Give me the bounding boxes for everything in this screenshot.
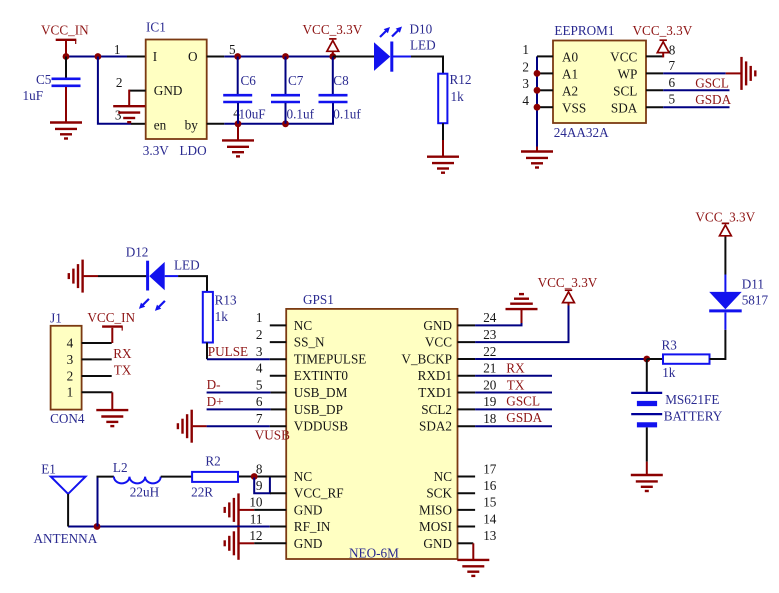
svg-text:GPS1: GPS1 (303, 292, 334, 307)
ground under C5 (50, 123, 82, 139)
wire VCC_IN rail (66, 56, 127, 58)
battery MS621FE (631, 359, 723, 462)
svg-text:LDO: LDO (180, 143, 207, 158)
pin stub GPS.13 + wire to ground (458, 543, 474, 559)
junction A1 (534, 70, 541, 77)
svg-text:LED: LED (410, 38, 436, 53)
svg-text:8: 8 (256, 461, 263, 476)
svg-text:22: 22 (483, 344, 496, 359)
wire net D- to pin 5 (207, 392, 287, 394)
svg-text:TX: TX (114, 362, 132, 377)
pin stub J1.2 (82, 375, 112, 377)
svg-text:TXD1: TXD1 (418, 385, 452, 400)
wire V_BCKP (475, 358, 647, 360)
svg-text:R2: R2 (205, 454, 220, 469)
svg-text:MISO: MISO (419, 502, 452, 517)
power flag VCC_IN (41, 23, 89, 57)
svg-text:TIMEPULSE: TIMEPULSE (294, 352, 367, 367)
svg-text:1k: 1k (215, 309, 229, 324)
pin stub GPS.21 (458, 375, 476, 377)
svg-text:NC: NC (434, 469, 453, 484)
pin stub GPS.3 (270, 358, 286, 360)
svg-text:GND: GND (423, 318, 452, 333)
svg-text:6: 6 (256, 394, 263, 409)
svg-text:C8: C8 (333, 73, 349, 88)
svg-text:20: 20 (483, 377, 497, 392)
wire SCL2 (475, 408, 552, 410)
wire D10 to R12 (411, 57, 443, 74)
svg-text:17: 17 (483, 461, 497, 476)
svg-text:GND: GND (294, 502, 323, 517)
svg-text:10: 10 (249, 495, 263, 510)
wire D12 to R13 (178, 276, 207, 292)
inductor L2 (113, 460, 161, 500)
svg-text:1: 1 (256, 310, 263, 325)
wire VUSB to pin 7 (193, 425, 287, 427)
junction at C5 (63, 53, 70, 60)
svg-text:4: 4 (67, 335, 74, 350)
wire eeprom left bus (536, 56, 538, 146)
svg-text:A0: A0 (562, 50, 579, 65)
svg-text:VCC_IN: VCC_IN (87, 310, 135, 325)
svg-text:3.3V: 3.3V (143, 143, 169, 158)
pin 1 stub IC1.I (127, 56, 146, 58)
LED D10 (374, 22, 436, 72)
junction A2 (534, 87, 541, 94)
svg-text:VCC_3.3V: VCC_3.3V (695, 210, 755, 225)
pin stub GPS.20 (458, 392, 476, 394)
junction antenna (94, 523, 101, 530)
svg-text:5817: 5817 (742, 293, 769, 308)
svg-text:3: 3 (256, 344, 263, 359)
svg-text:A1: A1 (562, 67, 578, 82)
wire L2 to R2 (161, 476, 192, 478)
svg-text:21: 21 (483, 361, 496, 376)
wire ground to D12 (84, 275, 147, 277)
pin 7 WP wire (646, 72, 741, 74)
ground at GPS pin 12 (sideways) (225, 527, 239, 560)
pin stub A0 (537, 55, 553, 57)
svg-text:10uF: 10uF (239, 107, 266, 122)
ground at D12 (sideways) (69, 260, 83, 293)
resistor R13 (203, 292, 237, 343)
svg-text:D-: D- (207, 377, 221, 392)
pin stub A2 (537, 89, 553, 91)
svg-text:24: 24 (483, 310, 497, 325)
svg-text:RXD1: RXD1 (418, 368, 452, 383)
svg-text:GSCL: GSCL (695, 75, 729, 90)
svg-text:D11: D11 (742, 277, 764, 292)
svg-text:GND: GND (154, 83, 183, 98)
pin stub GPS.19 (458, 408, 476, 410)
svg-text:22R: 22R (191, 485, 213, 500)
svg-text:4: 4 (522, 93, 529, 108)
svg-text:VCC_IN: VCC_IN (41, 23, 89, 38)
svg-text:5: 5 (256, 377, 263, 392)
capacitor C6 (223, 57, 265, 124)
junction V_BCKP (643, 356, 650, 363)
junction C6 bottom (235, 120, 242, 127)
svg-text:VDDUSB: VDDUSB (294, 419, 348, 434)
svg-text:D12: D12 (126, 245, 149, 260)
ground at GPS pin 13 (457, 560, 489, 576)
pin stub GPS.4 (270, 375, 286, 377)
svg-text:VCC_3.3V: VCC_3.3V (538, 275, 598, 290)
svg-text:R3: R3 (662, 338, 678, 353)
pin stub A1 (537, 72, 553, 74)
svg-text:RX: RX (113, 346, 132, 361)
capacitor C8 (319, 57, 362, 122)
junction C6 top (234, 53, 241, 60)
svg-text:IC1: IC1 (146, 20, 166, 35)
ground at GPS pin 10 (sideways) (225, 493, 239, 526)
IC EEPROM1 (553, 23, 646, 140)
wire net D+ to pin 6 (207, 408, 287, 410)
svg-text:3: 3 (67, 352, 74, 367)
pin stub J1.4 (82, 342, 112, 344)
pin 5 stub IC1.O (207, 56, 225, 58)
wire TXD1 (475, 392, 552, 394)
svg-text:11: 11 (250, 511, 263, 526)
svg-text:8: 8 (669, 43, 676, 58)
svg-text:RX: RX (506, 361, 525, 376)
wire SDA2 (475, 425, 552, 427)
svg-text:12: 12 (249, 528, 262, 543)
pin stub GPS.14 (458, 526, 476, 528)
wire ground to pin 10 (240, 509, 287, 511)
pin stub GPS.22 (458, 358, 476, 360)
wire antenna branch vertical (97, 477, 99, 527)
svg-text:R13: R13 (215, 293, 237, 308)
wire 3.3V top rail (224, 56, 332, 58)
svg-text:GND: GND (423, 536, 452, 551)
antenna E1 (34, 462, 98, 547)
power flag VCC_IN at J1 (87, 310, 135, 343)
junction C7 top (282, 53, 289, 60)
wire antenna to RF_IN pin 11 (68, 526, 286, 528)
wire junction to R3 (647, 358, 663, 360)
resistor R12 (438, 72, 471, 123)
svg-text:PULSE: PULSE (208, 344, 248, 359)
svg-text:MS621FE: MS621FE (665, 392, 719, 407)
junction VSS (534, 104, 541, 111)
svg-text:15: 15 (483, 495, 497, 510)
op-amp/regulator IC1 (143, 20, 207, 159)
pin stub VSS (537, 106, 553, 108)
svg-text:USB_DP: USB_DP (294, 402, 343, 417)
ground under C6 (222, 124, 254, 157)
svg-text:by: by (185, 118, 199, 133)
junction C7 bottom (282, 120, 289, 127)
svg-text:2: 2 (116, 75, 123, 90)
svg-text:1: 1 (67, 385, 74, 400)
svg-text:NC: NC (294, 318, 313, 333)
wire en branch (98, 57, 131, 124)
pin 4 stub IC1.by (207, 123, 225, 125)
svg-text:4: 4 (256, 361, 263, 376)
svg-text:24AA32A: 24AA32A (554, 125, 609, 140)
power flag VCC_3.3V at D11 (695, 210, 755, 236)
svg-text:1k: 1k (451, 89, 465, 104)
svg-text:2: 2 (67, 368, 74, 383)
svg-text:VCC: VCC (610, 50, 637, 65)
svg-text:VCC_3.3V: VCC_3.3V (633, 23, 693, 38)
svg-text:TX: TX (507, 377, 525, 392)
wire battery to ground (646, 462, 648, 475)
svg-text:7: 7 (256, 411, 263, 426)
svg-text:LED: LED (174, 258, 200, 273)
wire ground to pin 12 (240, 542, 287, 544)
svg-text:0.1uf: 0.1uf (333, 107, 361, 122)
svg-text:ANTENNA: ANTENNA (34, 531, 98, 546)
svg-text:1uF: 1uF (23, 88, 44, 103)
wire below R12 (442, 123, 444, 140)
wire pin 23 to VCC (475, 303, 568, 343)
power flag VCC_3.3V at eeprom pin 8 (633, 23, 693, 58)
capacitor C5 (23, 57, 81, 123)
svg-text:BATTERY: BATTERY (664, 408, 723, 423)
svg-text:1k: 1k (662, 365, 676, 380)
resistor R3 (662, 338, 710, 381)
svg-text:1: 1 (522, 42, 529, 57)
svg-text:13: 13 (483, 528, 497, 543)
svg-text:18: 18 (483, 411, 497, 426)
diode D11 (709, 275, 768, 330)
pin stub GPS.16 (458, 492, 476, 494)
pin stub GPS.17 (458, 476, 476, 478)
svg-text:22uH: 22uH (130, 485, 160, 500)
connector J1 (50, 311, 85, 426)
svg-text:VUSB: VUSB (255, 428, 290, 443)
svg-text:J1: J1 (50, 311, 62, 326)
svg-text:GSDA: GSDA (695, 92, 731, 107)
svg-text:RF_IN: RF_IN (294, 519, 331, 534)
svg-text:GSCL: GSCL (506, 394, 540, 409)
svg-text:CON4: CON4 (50, 411, 85, 426)
svg-text:SCK: SCK (426, 486, 452, 501)
svg-text:SDA2: SDA2 (419, 419, 452, 434)
svg-text:SS_N: SS_N (294, 335, 325, 350)
svg-text:3: 3 (115, 108, 122, 123)
svg-text:14: 14 (483, 511, 497, 526)
junction C8/VCC (329, 53, 336, 60)
wire R13 to pin3 (207, 343, 270, 360)
svg-text:VCC_3.3V: VCC_3.3V (303, 22, 363, 37)
svg-text:A2: A2 (562, 84, 578, 99)
svg-text:19: 19 (483, 394, 497, 409)
ground under eeprom (521, 147, 553, 168)
svg-text:GND: GND (294, 536, 323, 551)
svg-text:L2: L2 (113, 460, 128, 475)
wire pin 9 loop (254, 478, 286, 494)
svg-text:23: 23 (483, 327, 497, 342)
svg-text:7: 7 (669, 58, 676, 73)
ground inverted at pin 24 (506, 294, 538, 309)
svg-text:D+: D+ (207, 394, 224, 409)
svg-text:C6: C6 (241, 73, 257, 88)
pin 5 SDA wire (646, 106, 730, 108)
svg-text:VCC: VCC (425, 335, 452, 350)
svg-text:WP: WP (618, 67, 638, 82)
svg-text:5: 5 (669, 92, 676, 107)
pin stub GPS.15 (458, 509, 476, 511)
pin 2 GND path (129, 90, 146, 106)
svg-text:R12: R12 (450, 72, 472, 87)
pin stub GPS.1 (270, 324, 286, 326)
svg-text:USB_DM: USB_DM (294, 385, 348, 400)
wire R3 to D11 (710, 330, 726, 359)
IC GPS1 NEO-6M (286, 292, 457, 561)
wire RXD1 (475, 375, 552, 377)
svg-text:V_BCKP: V_BCKP (401, 352, 452, 367)
junction pin8 (251, 473, 258, 480)
svg-text:16: 16 (483, 478, 497, 493)
ground under battery (631, 475, 663, 491)
svg-text:NEO-6M: NEO-6M (349, 546, 399, 561)
wire to L2 (97, 476, 114, 478)
svg-text:SCL: SCL (613, 84, 637, 99)
wire pin 24 to ground (475, 309, 521, 325)
svg-text:D10: D10 (410, 22, 433, 37)
svg-text:9: 9 (256, 478, 263, 493)
pin 6 SCL wire (646, 89, 730, 91)
svg-text:EXTINT0: EXTINT0 (294, 368, 349, 383)
svg-text:E1: E1 (41, 462, 56, 477)
svg-text:2: 2 (256, 327, 263, 342)
svg-text:MOSI: MOSI (419, 519, 452, 534)
svg-text:GSDA: GSDA (506, 410, 542, 425)
svg-text:SCL2: SCL2 (421, 402, 452, 417)
power flag VCC_3.3V top (303, 22, 363, 56)
svg-text:C5: C5 (36, 72, 52, 87)
wire VCC to D10 (333, 56, 374, 58)
junction at en branch (95, 53, 102, 60)
svg-text:6: 6 (669, 75, 676, 90)
svg-text:VCC_RF: VCC_RF (294, 486, 344, 501)
svg-text:NC: NC (294, 469, 313, 484)
LED D12 (126, 245, 200, 311)
svg-text:3: 3 (522, 76, 529, 91)
pin stub GPS.2 (270, 341, 286, 343)
wire R2 to pin 8 (239, 476, 287, 478)
svg-text:C7: C7 (288, 73, 304, 88)
svg-text:1: 1 (114, 42, 121, 57)
ground at IC1 pin2 (113, 106, 145, 122)
pin stub J1.3 (82, 358, 112, 360)
svg-text:O: O (188, 49, 198, 64)
svg-text:SDA: SDA (611, 101, 638, 116)
ground at WP (sideways) (742, 57, 756, 90)
svg-text:0.1uf: 0.1uf (287, 107, 315, 122)
pin stub GPS.23 (458, 341, 476, 343)
power flag VCC_3.3V at pin 23 (538, 275, 598, 303)
svg-text:2: 2 (522, 59, 529, 74)
resistor R2 (191, 454, 238, 500)
ground under R12 (427, 140, 459, 173)
pin stub GPS.18 (458, 425, 476, 427)
pin stub J1.1 (82, 391, 113, 393)
svg-text:VSS: VSS (562, 101, 586, 116)
ground at VUSB (sideways) (178, 410, 192, 443)
ground at J1 pin1 (96, 392, 128, 426)
pin stub GPS.24 (458, 324, 476, 326)
svg-text:I: I (153, 49, 157, 64)
capacitor C7 (271, 57, 315, 124)
wire bottom rail to C8 (224, 103, 333, 124)
pin 3 stub IC1.en (131, 123, 146, 125)
wire D11 to VCC (724, 236, 726, 275)
svg-text:en: en (154, 118, 167, 133)
svg-text:EEPROM1: EEPROM1 (554, 23, 614, 38)
